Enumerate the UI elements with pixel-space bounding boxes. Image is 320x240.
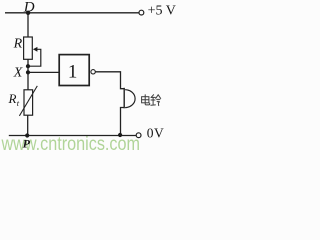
svg-text:X: X: [13, 66, 23, 81]
svg-text:1: 1: [68, 61, 78, 82]
svg-text:0V: 0V: [147, 126, 164, 141]
svg-text:R: R: [13, 36, 23, 51]
svg-text:www.cntronics.com: www.cntronics.com: [1, 134, 140, 155]
svg-text:P: P: [23, 137, 31, 151]
svg-text:+5 V: +5 V: [148, 4, 176, 19]
svg-text:D: D: [23, 0, 35, 15]
svg-text:R: R: [8, 91, 17, 106]
